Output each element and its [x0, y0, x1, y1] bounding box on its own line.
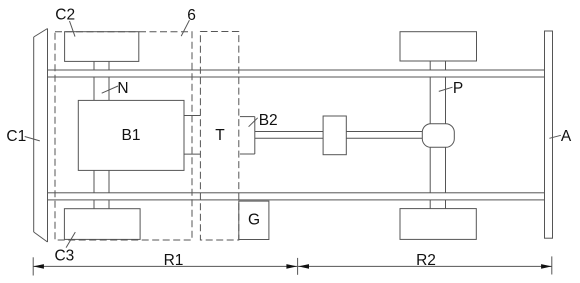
leader line A — [549, 135, 561, 138]
wheel C3 (front right) — [64, 209, 140, 240]
frame rail rear (bottom) — [48, 193, 545, 200]
leader line 6 — [181, 20, 189, 36]
wire rear axle lower stub (left) — [429, 147, 431, 208]
svg-text:C2: C2 — [55, 7, 75, 24]
wire B1 lower right stub — [184, 153, 200, 155]
leader line C2 — [70, 21, 76, 37]
svg-text:N: N — [117, 80, 128, 97]
dimension extension tick right — [551, 256, 553, 274]
wire front axle upper stub (right) — [108, 61, 110, 100]
dashed module boundary T — [200, 32, 238, 241]
wheel rear-left — [400, 32, 477, 61]
rear crossmember A — [545, 31, 553, 238]
svg-text:C1: C1 — [6, 128, 26, 145]
arrowhead R2 right — [541, 264, 552, 269]
leader line B2 — [249, 118, 258, 127]
bumper C1 left edge — [33, 37, 35, 232]
fuel tank G — [239, 201, 269, 239]
svg-text:T: T — [215, 127, 225, 144]
wire propeller shaft lower line — [255, 137, 422, 139]
svg-text:R2: R2 — [416, 252, 436, 269]
bumper C1 right edge — [47, 29, 49, 243]
connector bracket B2 top tick — [240, 116, 255, 118]
wire front axle upper stub (left) — [93, 61, 95, 100]
leader line P — [439, 87, 453, 91]
center joint box — [323, 116, 346, 155]
dimension line R1 — [33, 265, 297, 267]
differential (rounded) — [422, 124, 454, 148]
svg-text:6: 6 — [187, 7, 196, 24]
wire rear axle upper stub (right) — [445, 61, 447, 124]
bumper C1 top slant — [34, 29, 48, 38]
svg-text:G: G — [248, 212, 260, 229]
arrowhead R1 right — [286, 264, 297, 269]
wire B1 upper right stub — [184, 115, 200, 117]
svg-text:P: P — [453, 80, 463, 97]
wire rear axle lower stub (right) — [445, 147, 447, 208]
wire rear axle upper stub (left) — [429, 61, 431, 124]
frame rail front (top) — [48, 70, 545, 77]
dashed module boundary 6 — [55, 32, 192, 240]
svg-text:C3: C3 — [54, 248, 74, 265]
connector bracket B2 vertical — [254, 117, 256, 154]
svg-text:B1: B1 — [122, 127, 141, 144]
dimension line R2 — [298, 265, 552, 267]
leader line C3 — [66, 232, 75, 248]
bumper C1 bottom slant — [34, 232, 48, 242]
connector bracket B2 bottom tick — [240, 153, 255, 155]
wheel C2 (front left) — [65, 32, 139, 62]
svg-text:R1: R1 — [164, 252, 184, 269]
dimension extension tick middle — [297, 258, 299, 275]
battery box B1 — [78, 100, 184, 170]
svg-text:B2: B2 — [259, 112, 278, 129]
leader line N — [102, 86, 118, 93]
arrowhead R2 left — [298, 264, 309, 269]
dimension extension tick left — [32, 257, 34, 275]
wire front axle lower stub (left) — [93, 170, 95, 208]
arrowhead R1 left — [33, 264, 44, 269]
wire front axle lower stub (right) — [108, 170, 110, 208]
wheel rear-right — [400, 209, 476, 240]
svg-text:A: A — [561, 128, 572, 145]
wire propeller shaft upper line — [255, 131, 422, 133]
leader line C1 — [25, 137, 40, 141]
